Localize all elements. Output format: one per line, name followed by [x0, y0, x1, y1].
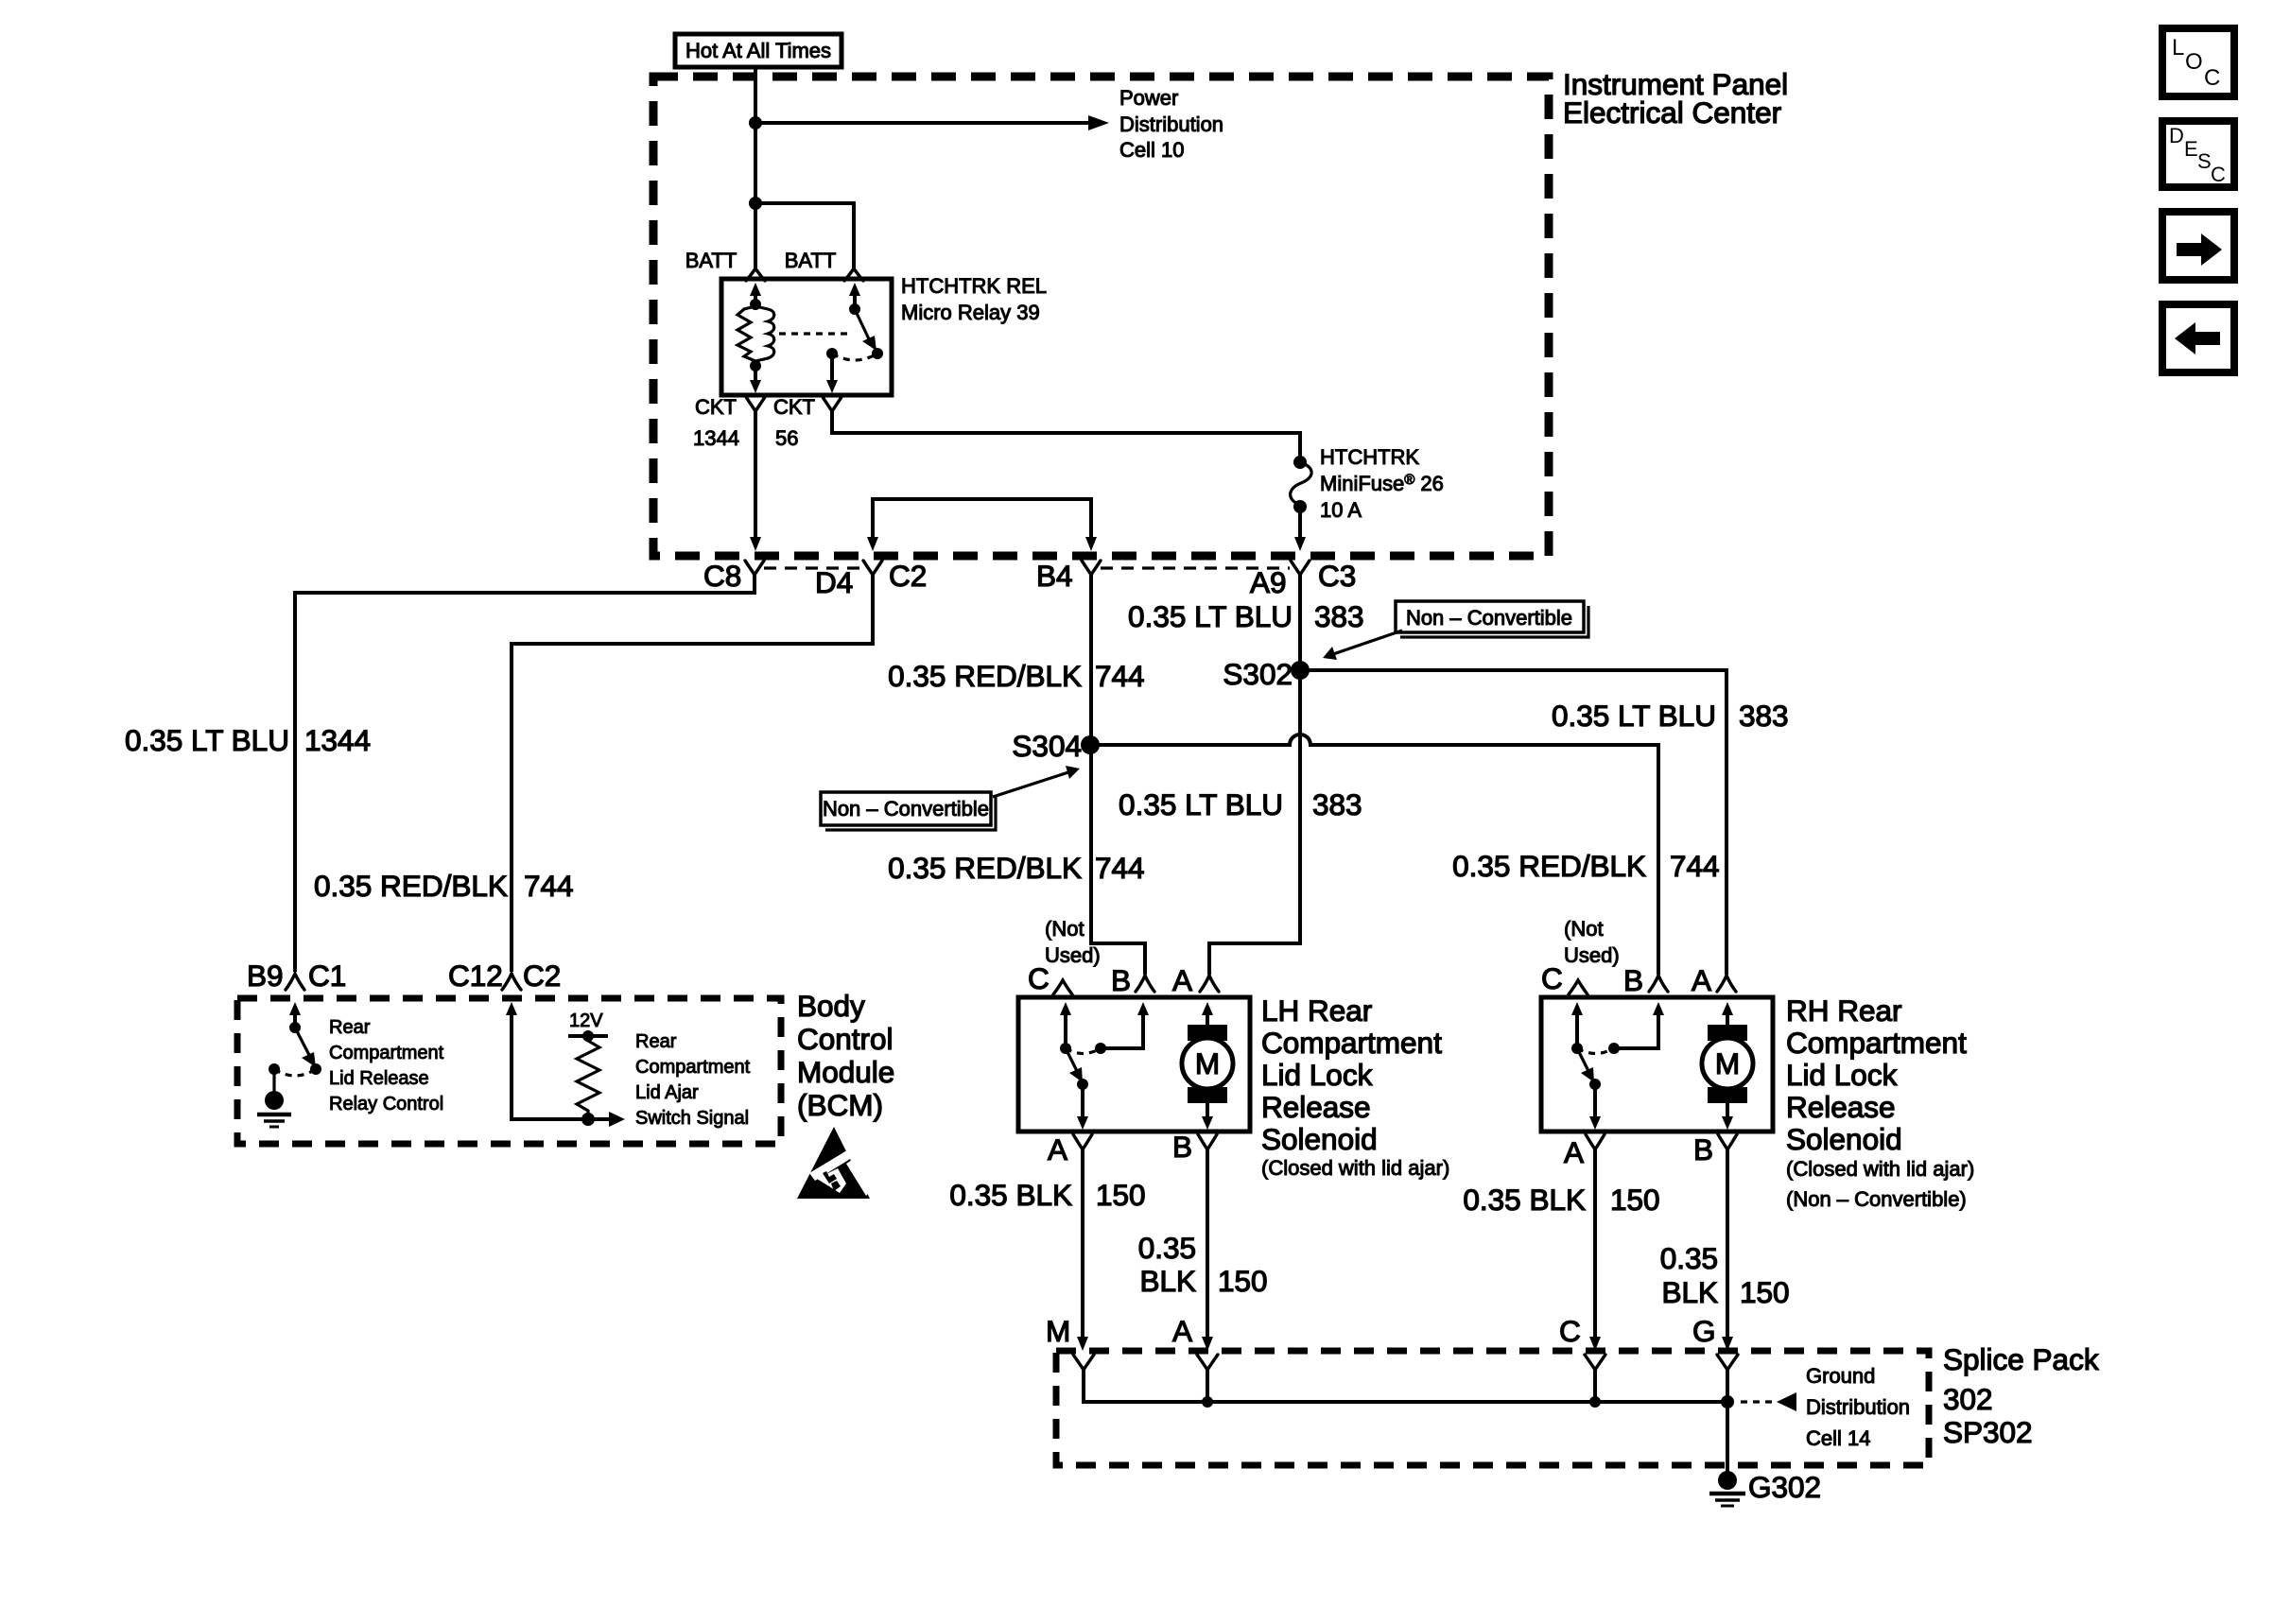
wire LH A to splice M (circuit 150) [1077, 1148, 1088, 1351]
relay internal dashed link coil to switch [779, 332, 849, 335]
RH switch blade with arrowhead [1577, 1048, 1594, 1082]
svg-text:S304: S304 [1012, 729, 1082, 763]
svg-text:150: 150 [1740, 1275, 1790, 1309]
svg-text:744: 744 [1095, 659, 1145, 693]
svg-text:0.35 RED/BLK: 0.35 RED/BLK [888, 851, 1082, 885]
svg-text:Release: Release [1786, 1090, 1896, 1124]
svg-text:0.35 LT BLU: 0.35 LT BLU [1128, 599, 1293, 633]
node junction dot power feed [749, 116, 762, 130]
svg-text:Cell 14: Cell 14 [1806, 1426, 1870, 1450]
relay output arrow down [826, 354, 838, 393]
relay switch dashed throw arc [832, 354, 877, 360]
relay switch blade with arrowhead [855, 309, 876, 351]
nav button back arrow [2162, 304, 2234, 372]
wire RH A to splice C (circuit 150) [1589, 1148, 1601, 1351]
label CKT 56 [773, 395, 815, 450]
svg-text:Non – Convertible: Non – Convertible [823, 797, 989, 821]
relay switch blade end dot [872, 348, 883, 359]
svg-text:S: S [2197, 149, 2212, 173]
label 0.35 BLK (LH B) [1138, 1231, 1268, 1298]
pin BATT right chevron [844, 268, 863, 281]
BCM switch dashed throw arc [274, 1069, 316, 1076]
svg-text:Lid Ajar: Lid Ajar [635, 1082, 699, 1103]
12V pullup bar [568, 1034, 608, 1038]
RH contact wire to B arrow up [1614, 1002, 1664, 1048]
svg-text:C: C [2211, 163, 2226, 186]
wire CKT56 right to fuse [832, 410, 1300, 459]
svg-text:B9: B9 [247, 959, 284, 993]
BCM switch blade end dot [310, 1063, 321, 1075]
label Rear Compartment Lid Release Relay Control [329, 1017, 444, 1114]
LH blade end dot [1077, 1079, 1088, 1090]
svg-text:0.35: 0.35 [1138, 1231, 1196, 1265]
relay coil resistor zigzag [737, 306, 755, 361]
ground G302 symbol [1709, 1471, 1745, 1506]
wire fuse down to C3 with arrow [1294, 507, 1306, 551]
wire RH B to splice G (circuit 150) [1722, 1148, 1733, 1351]
svg-text:BLK: BLK [1139, 1264, 1196, 1298]
LH motor top arrow up [1202, 1002, 1213, 1025]
LH switch C arrow up [1060, 1002, 1071, 1048]
svg-text:SP302: SP302 [1943, 1415, 2033, 1449]
svg-text:Ground: Ground [1806, 1364, 1875, 1388]
ESD sensitive device symbol [797, 1127, 871, 1199]
svg-text:0.35: 0.35 [1660, 1241, 1718, 1275]
svg-text:B: B [1111, 963, 1131, 997]
RH switch contact dot [1608, 1043, 1620, 1054]
pin C funnel [1585, 1355, 1605, 1370]
pin B LH connector [1136, 976, 1154, 992]
LH motor bottom arrow down [1202, 1103, 1213, 1130]
label CKT 1344 [693, 395, 739, 450]
wire LH B to splice A (circuit 150) [1202, 1148, 1213, 1351]
svg-text:0.35 RED/BLK: 0.35 RED/BLK [314, 869, 508, 903]
relay coil top node dot [750, 299, 761, 310]
pin A LH bottom funnel [1073, 1134, 1092, 1149]
splice bus wire [1084, 1368, 1727, 1402]
svg-text:B: B [1693, 1132, 1713, 1166]
relay switch output dot [826, 348, 838, 359]
svg-text:O: O [2185, 49, 2203, 75]
svg-text:C1: C1 [308, 959, 346, 993]
LH switch common dot [1060, 1043, 1071, 1054]
pin CKT 1344 funnel [746, 397, 765, 411]
label HTCHTRK REL Micro Relay 39 [901, 274, 1047, 324]
LH switch output arrow down [1077, 1084, 1088, 1130]
svg-text:Distribution: Distribution [1806, 1395, 1910, 1419]
relay K1 HTCHTRK REL box [721, 279, 892, 395]
svg-text:C: C [2204, 65, 2220, 91]
wire from Hot At All Times down to relay BATT [754, 67, 757, 270]
svg-text:A: A [1172, 963, 1192, 997]
relay switch common pin arrow up [849, 283, 860, 304]
pin C RH not used chevron [1569, 980, 1588, 994]
LH switch dashed arc [1066, 1048, 1101, 1054]
svg-text:Compartment: Compartment [329, 1043, 444, 1063]
svg-text:A: A [1692, 963, 1711, 997]
svg-text:C8: C8 [703, 559, 741, 593]
switch signal arrow right [588, 1112, 625, 1127]
svg-text:Micro Relay 39: Micro Relay 39 [901, 301, 1040, 324]
pin B LH bottom funnel [1198, 1134, 1217, 1149]
svg-text:B4: B4 [1036, 559, 1073, 593]
arrow from Non-Convertible box to S304 [993, 766, 1080, 797]
LH switch contact dot [1095, 1043, 1106, 1054]
relay coil inductor bumps [755, 306, 774, 361]
pin A RH bottom funnel [1586, 1134, 1605, 1149]
svg-text:Relay Control: Relay Control [329, 1094, 443, 1114]
svg-text:(Closed with lid ajar): (Closed with lid ajar) [1261, 1156, 1449, 1180]
dashed stub to ground distribution [1741, 1400, 1775, 1403]
svg-text:Lid Release: Lid Release [329, 1068, 429, 1089]
splice S302 dot [1291, 661, 1310, 680]
arrow from Non-Convertible box to S302 [1323, 631, 1402, 660]
wire bridge from C2 to B4 inside IP [867, 499, 1097, 551]
svg-text:(Closed with lid ajar): (Closed with lid ajar) [1786, 1157, 1974, 1181]
pin D4 C2 funnel [863, 561, 882, 575]
svg-text:Electrical Center: Electrical Center [1563, 95, 1781, 130]
LH contact wire to B arrow up [1101, 1002, 1149, 1048]
pin C LH not used chevron [1053, 980, 1072, 994]
svg-text:Module: Module [797, 1055, 894, 1089]
svg-text:D4: D4 [815, 565, 853, 599]
svg-text:10 A: 10 A [1320, 498, 1362, 522]
svg-text:A: A [1048, 1132, 1067, 1166]
RH solenoid box [1541, 997, 1773, 1132]
wire S304 to RH solenoid B with hop over 383 wire [1090, 734, 1658, 975]
svg-text:12V: 12V [569, 1011, 603, 1031]
label (Not Used) LH [1045, 917, 1101, 967]
svg-text:BATT: BATT [685, 249, 737, 272]
label Body Control Module (BCM) [797, 989, 894, 1122]
BCM relay control arrow up [289, 1002, 301, 1028]
svg-text:1344: 1344 [304, 723, 371, 757]
label (Not Used) RH [1564, 917, 1620, 967]
12V node dot [582, 1030, 594, 1042]
relay coil bottom node dot [750, 360, 761, 371]
svg-text:744: 744 [1095, 851, 1145, 885]
svg-text:CKT: CKT [695, 395, 737, 419]
pin A funnel [1197, 1355, 1218, 1370]
svg-text:HTCHTRK REL: HTCHTRK REL [901, 274, 1047, 298]
svg-text:BATT: BATT [785, 249, 837, 272]
RH switch output arrow down [1589, 1084, 1601, 1130]
svg-text:G: G [1692, 1314, 1716, 1348]
svg-text:D: D [2169, 124, 2184, 147]
svg-text:Compartment: Compartment [1261, 1026, 1442, 1060]
stub G through bus to ground [1726, 1368, 1729, 1475]
svg-text:A9: A9 [1250, 565, 1287, 599]
relay coil pin arrow up [750, 283, 761, 301]
svg-text:Lid Lock: Lid Lock [1786, 1058, 1898, 1092]
svg-text:MiniFuse® 26: MiniFuse® 26 [1320, 472, 1444, 495]
svg-text:(Not: (Not [1045, 917, 1084, 941]
svg-text:Power: Power [1119, 86, 1178, 110]
label Instrument Panel Electrical Center [1563, 67, 1788, 130]
svg-text:B: B [1623, 963, 1643, 997]
stub A to bus [1206, 1368, 1209, 1402]
svg-text:Switch Signal: Switch Signal [635, 1108, 749, 1129]
resistor R1 pullup zigzag [577, 1036, 599, 1116]
svg-text:C: C [1559, 1314, 1581, 1348]
RH motor bottom arrow down [1722, 1103, 1733, 1130]
pin B4 funnel [1082, 561, 1101, 575]
svg-text:383: 383 [1739, 699, 1789, 733]
RH switch common dot [1571, 1043, 1583, 1054]
svg-text:0.35 RED/BLK: 0.35 RED/BLK [888, 659, 1082, 693]
pin BATT left chevron [746, 268, 765, 281]
svg-text:0.35 LT BLU: 0.35 LT BLU [125, 723, 289, 757]
LH switch blade with arrowhead [1066, 1048, 1083, 1082]
junction dot A [1202, 1396, 1213, 1408]
wire arrow to Power Distribution [755, 115, 1109, 130]
RH blade end dot [1589, 1079, 1601, 1090]
nav button LOC [2162, 28, 2234, 96]
Instrument Panel Electrical Center dashed box [653, 77, 1549, 556]
svg-text:Compartment: Compartment [635, 1057, 751, 1078]
nav button next arrow [2162, 212, 2234, 280]
svg-text:150: 150 [1610, 1183, 1660, 1217]
wire CKT1344 down to C8 with arrow [750, 410, 761, 551]
junction dot G [1721, 1395, 1734, 1408]
svg-text:C: C [1028, 961, 1050, 995]
relay switch common dot [849, 303, 860, 315]
svg-text:Solenoid: Solenoid [1786, 1122, 1902, 1156]
wire B4 down to LH solenoid B (circuit 744) [1091, 574, 1145, 975]
label Rear Compartment Lid Ajar Switch Signal [635, 1031, 751, 1129]
svg-text:A: A [1564, 1135, 1584, 1169]
svg-text:M: M [1195, 1046, 1220, 1080]
svg-text:HTCHTRK: HTCHTRK [1320, 445, 1419, 469]
BCM switch blade with arrowhead [295, 1028, 316, 1067]
svg-text:0.35 BLK: 0.35 BLK [1463, 1183, 1586, 1217]
svg-text:L: L [2172, 35, 2184, 60]
svg-text:56: 56 [775, 426, 798, 450]
pin A LH connector [1200, 976, 1219, 992]
svg-text:Cell 10: Cell 10 [1119, 138, 1184, 162]
pin B RH bottom funnel [1718, 1134, 1737, 1149]
callout box Non-Convertible (S302) [1396, 601, 1588, 637]
svg-text:Non – Convertible: Non – Convertible [1406, 606, 1572, 630]
svg-text:C2: C2 [889, 559, 927, 593]
wire branch to second BATT pin [755, 203, 854, 270]
svg-text:Used): Used) [1564, 943, 1620, 967]
svg-text:383: 383 [1314, 599, 1364, 633]
splice S304 dot [1081, 735, 1100, 754]
thin dashed connector join B4 to C3 [1101, 566, 1290, 569]
svg-text:(Non – Convertible): (Non – Convertible) [1786, 1187, 1967, 1211]
svg-text:Used): Used) [1045, 943, 1101, 967]
wire A9/C3 down to LH solenoid A (circuit 383) [1209, 574, 1300, 975]
pin B RH connector [1649, 976, 1668, 992]
pin A9 C3 funnel [1291, 561, 1310, 575]
svg-text:Compartment: Compartment [1786, 1026, 1967, 1060]
svg-text:744: 744 [1670, 849, 1720, 883]
svg-text:1344: 1344 [693, 426, 739, 450]
motor M RH [1702, 1025, 1753, 1103]
label HTCHTRK MiniFuse 26 10 A [1320, 445, 1444, 522]
RH motor top arrow up [1722, 1002, 1733, 1025]
node junction dot BATT branch [749, 197, 762, 210]
fuse F1 HTCHTRK MiniFuse 26 [1291, 456, 1312, 513]
svg-text:0.35 LT BLU: 0.35 LT BLU [1552, 699, 1716, 733]
pin A RH connector [1717, 976, 1736, 992]
svg-text:Solenoid: Solenoid [1261, 1122, 1378, 1156]
svg-text:E: E [2184, 137, 2198, 161]
svg-text:M: M [1046, 1314, 1070, 1348]
svg-text:C3: C3 [1318, 559, 1356, 593]
BCM internal ground [257, 1069, 291, 1127]
stub C to bus [1593, 1368, 1597, 1402]
pin G funnel [1717, 1355, 1738, 1370]
svg-text:Control: Control [797, 1022, 894, 1056]
svg-text:Rear: Rear [329, 1017, 371, 1038]
label 0.35 BLK (RH B) [1660, 1241, 1790, 1309]
motor M LH [1182, 1025, 1233, 1103]
wire C8 to BCM B9/C1 (circuit 1344) [295, 574, 755, 972]
RH switch dashed arc [1577, 1048, 1614, 1054]
relay coil lower arrow down [750, 366, 761, 393]
arrowhead ground distribution [1777, 1392, 1796, 1411]
svg-text:LH Rear: LH Rear [1261, 993, 1372, 1028]
svg-text:150: 150 [1218, 1264, 1268, 1298]
svg-text:0.35 RED/BLK: 0.35 RED/BLK [1452, 849, 1646, 883]
wire S302 to RH solenoid A (circuit 383) [1300, 670, 1726, 975]
svg-text:150: 150 [1096, 1178, 1146, 1212]
label RH Rear Compartment Lid Lock Release Solenoid [1786, 993, 1974, 1211]
label Ground Distribution Cell 14 [1806, 1364, 1910, 1450]
svg-text:Release: Release [1261, 1090, 1371, 1124]
callout box Non-Convertible (S304) [821, 792, 996, 830]
pin C8 funnel [745, 561, 764, 575]
svg-text:C2: C2 [523, 959, 561, 993]
svg-text:B: B [1172, 1130, 1192, 1164]
Hot At All Times callout box [675, 34, 842, 67]
svg-text:(Not: (Not [1564, 917, 1604, 941]
svg-text:C12: C12 [448, 959, 503, 993]
label Splice Pack 302 SP302 [1943, 1342, 2099, 1449]
thin dashed connector join C8 to C2 [764, 566, 862, 569]
BCM dashed box [237, 998, 781, 1144]
label LH Rear Compartment Lid Lock Release Solenoid [1261, 993, 1449, 1180]
svg-text:C: C [1541, 961, 1563, 995]
label Power Distribution Cell 10 [1119, 86, 1223, 162]
svg-text:RH Rear: RH Rear [1786, 993, 1902, 1028]
svg-text:Hot At All Times: Hot At All Times [685, 39, 831, 62]
resistor bottom junction dot [581, 1113, 595, 1126]
RH switch C arrow up [1571, 1002, 1583, 1048]
Splice Pack 302 dashed box [1056, 1351, 1929, 1465]
svg-text:Splice Pack: Splice Pack [1943, 1342, 2099, 1376]
BCM lid ajar input arrow up [506, 1002, 586, 1119]
svg-text:744: 744 [524, 869, 574, 903]
nav button DESC [2162, 121, 2234, 187]
svg-text:Rear: Rear [635, 1031, 677, 1052]
svg-text:M: M [1715, 1046, 1740, 1080]
svg-text:383: 383 [1312, 787, 1362, 821]
svg-text:G302: G302 [1748, 1470, 1821, 1504]
svg-text:Body: Body [797, 989, 865, 1023]
BCM switch common dot [289, 1022, 301, 1033]
svg-text:0.35 LT BLU: 0.35 LT BLU [1119, 787, 1283, 821]
pin B9 C1 connector [286, 974, 304, 990]
pin C12 C2 connector [502, 974, 521, 990]
svg-text:A: A [1172, 1314, 1192, 1348]
pin CKT 56 funnel [823, 397, 842, 411]
pin M funnel [1073, 1355, 1094, 1370]
svg-text:CKT: CKT [773, 395, 815, 419]
junction dot C [1589, 1396, 1601, 1408]
svg-text:Lid Lock: Lid Lock [1261, 1058, 1373, 1092]
svg-text:0.35 BLK: 0.35 BLK [949, 1178, 1072, 1212]
svg-text:S302: S302 [1223, 657, 1293, 691]
svg-text:302: 302 [1943, 1382, 1993, 1416]
BCM switch left contact dot [269, 1063, 280, 1075]
svg-text:BLK: BLK [1661, 1275, 1718, 1309]
svg-text:Distribution: Distribution [1119, 112, 1223, 136]
wire C2 to BCM C12/C2 (circuit 744) [512, 574, 873, 972]
LH solenoid box [1018, 997, 1250, 1132]
svg-text:(BCM): (BCM) [797, 1088, 883, 1122]
